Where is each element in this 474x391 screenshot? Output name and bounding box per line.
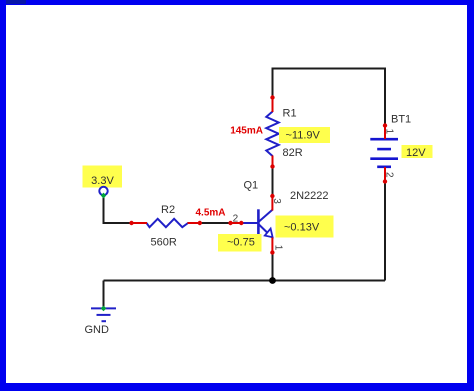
resistor R1 pin 1 (top, red) (270, 95, 274, 112)
svg-text:BT1: BT1 (391, 114, 411, 126)
svg-text:12V: 12V (406, 147, 426, 159)
svg-text:R2: R2 (161, 204, 175, 216)
pin number 2 (BT1) (384, 172, 395, 178)
svg-text:560R: 560R (151, 237, 177, 249)
transistor Q1 base lead (242, 222, 259, 224)
resistor R2 pin 2 (right, red) (188, 221, 203, 225)
svg-text:2: 2 (384, 172, 395, 178)
wire 3.3V source down and right to R2 (104, 196, 132, 223)
resistor R1 body (266, 112, 278, 157)
wire GND branch (103, 281, 105, 309)
resistor R2 pin 1 (left, red) (129, 221, 147, 225)
probe label ~0.75 (218, 234, 262, 252)
label R1 (283, 108, 297, 120)
svg-text:GND: GND (85, 324, 110, 336)
svg-text:3: 3 (271, 198, 282, 204)
probe label ~11.9V (279, 127, 330, 143)
transistor Q1 base bar (257, 209, 260, 236)
wire BT1 bottom to bottom rail (384, 182, 386, 281)
svg-text:1: 1 (384, 129, 395, 135)
svg-text:3.3V: 3.3V (91, 175, 114, 187)
svg-text:145mA: 145mA (230, 126, 263, 137)
ground symbol bar 1 (91, 307, 116, 309)
transistor Q1 collector pin (red) (270, 194, 274, 211)
battery BT1 plate 2 (short) (377, 148, 391, 151)
svg-text:Q1: Q1 (244, 180, 259, 192)
resistor R2 body (147, 219, 189, 227)
label GND (85, 324, 110, 336)
value 560R (151, 237, 177, 249)
battery BT1 plate 1 (long) (370, 138, 398, 141)
input connector circle (3.3V source) (99, 187, 107, 195)
wire bottom rail (104, 280, 386, 282)
probe label ~0.13V (276, 216, 334, 238)
transistor Q1 emitter lead (258, 224, 272, 238)
svg-text:1: 1 (272, 245, 283, 251)
ground symbol bar 2 (97, 314, 111, 316)
svg-text:~0.75: ~0.75 (227, 237, 255, 249)
green tick at ground (101, 306, 107, 312)
label BT1 (391, 114, 411, 126)
svg-text:82R: 82R (283, 147, 303, 159)
transistor Q1 base pin (red) (228, 221, 243, 225)
transistor Q1 emitter arrow (265, 229, 273, 238)
svg-text:~0.13V: ~0.13V (284, 222, 320, 234)
transistor Q1 emitter pin (red) (270, 238, 274, 255)
current label 4.5mA (196, 208, 226, 219)
green tick at connector (101, 193, 107, 199)
label R2 (161, 204, 175, 216)
wire Q1 emitter to bottom rail (272, 253, 274, 281)
transistor Q1 collector lead (258, 210, 272, 222)
probe label 3.3V (83, 166, 123, 188)
label Q1 (244, 180, 259, 192)
ground symbol bar 3 (102, 320, 107, 322)
battery BT1 plate 3 (long) (370, 157, 398, 160)
pin number 1 (BT1) (384, 129, 395, 135)
value 2N2222 (290, 190, 329, 202)
junction node emitter/bottom rail (269, 277, 276, 284)
wire R2 to Q1 base (200, 222, 231, 224)
current label 145mA (230, 126, 263, 137)
pin number 1 (Q1 emitter) (272, 245, 283, 251)
svg-text:4.5mA: 4.5mA (196, 208, 226, 219)
battery BT1 pin 1 (top, red) (383, 123, 387, 139)
pin number 3 (Q1 collector) (271, 198, 282, 204)
svg-text:~11.9V: ~11.9V (286, 130, 321, 142)
svg-text:2: 2 (233, 214, 239, 225)
wire R1 bottom to Q1 collector (272, 167, 274, 197)
svg-text:2N2222: 2N2222 (290, 190, 329, 202)
battery BT1 pin 2 (bottom, red) (383, 167, 387, 184)
svg-text:R1: R1 (283, 108, 297, 120)
wire top rail from R1 branch to BT1 branch (273, 69, 386, 126)
resistor R1 pin 2 (bottom, red) (270, 156, 274, 169)
pin number 2 (Q1 base) (233, 214, 239, 225)
value 82R (283, 147, 303, 159)
battery BT1 plate 4 (short) (377, 166, 391, 169)
probe label 12V (402, 145, 433, 159)
